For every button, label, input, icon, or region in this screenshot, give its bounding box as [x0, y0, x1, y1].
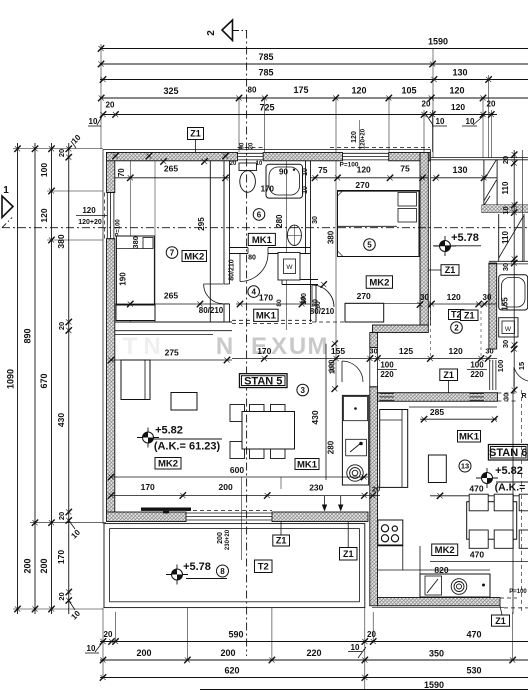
- room2 dim row y304: [428, 303, 497, 305]
- staircase rails upper: [483, 160, 485, 206]
- STAN6 kitchen top counter line: [409, 406, 497, 408]
- room7 wardrobe: [116, 305, 155, 321]
- svg-text:Z1: Z1: [190, 129, 201, 139]
- svg-text:MK2: MK2: [184, 251, 204, 262]
- svg-text:5: 5: [367, 240, 372, 249]
- washer W: [278, 253, 300, 281]
- svg-text:120: 120: [449, 86, 464, 96]
- bath vertical dim line: [285, 161, 287, 330]
- svg-text:230: 230: [309, 483, 323, 493]
- svg-text:W: W: [505, 326, 512, 333]
- svg-text:470: 470: [469, 484, 483, 494]
- svg-text:100: 100: [496, 360, 505, 373]
- Z1 label room2: [441, 265, 459, 276]
- STAN 5 label redraw: [240, 374, 288, 388]
- svg-text:200: 200: [39, 558, 49, 573]
- svg-text:Z1: Z1: [276, 536, 287, 546]
- svg-text:170: 170: [259, 293, 273, 303]
- top wall inner face ticks: [112, 153, 118, 159]
- room5 door (south): [312, 285, 334, 307]
- svg-text:80/210: 80/210: [310, 307, 335, 316]
- svg-text:30: 30: [501, 340, 510, 348]
- dimension row top 5 (20/725/20/120/20): [103, 114, 497, 116]
- svg-text:120: 120: [357, 165, 371, 175]
- room2 dim row y358 (170/155/30/125/120/30): [232, 358, 497, 360]
- svg-text:120: 120: [351, 86, 366, 96]
- room7 dim row (70/265): [115, 177, 230, 179]
- svg-text:+5.78: +5.78: [183, 561, 211, 573]
- svg-text:350: 350: [429, 649, 444, 659]
- svg-text:P=100: P=100: [509, 589, 527, 595]
- room7 bed: [116, 236, 154, 304]
- svg-text:T2: T2: [451, 310, 462, 320]
- section line 1 horizontal dash-dot: [2, 227, 528, 229]
- extension lines left: [13, 148, 103, 150]
- svg-text:230+20: 230+20: [225, 529, 231, 550]
- leader 10 left bottom: [69, 600, 75, 610]
- svg-text:Z1: Z1: [495, 616, 506, 626]
- svg-text:220: 220: [306, 648, 321, 658]
- svg-text:20: 20: [57, 322, 66, 330]
- svg-text:100: 100: [327, 360, 336, 373]
- STAN6 dim 470 top: [430, 495, 528, 497]
- svg-text:MK1: MK1: [459, 432, 480, 443]
- TV console: [141, 508, 191, 511]
- svg-text:30: 30: [312, 216, 319, 224]
- wall bath/hall horizontal: [230, 247, 249, 249]
- section marker 2 top: [222, 20, 233, 41]
- STAN6 east window below: [489, 360, 491, 390]
- svg-text:270: 270: [355, 180, 369, 190]
- STAN6 bathtub: [499, 275, 528, 310]
- svg-text:2: 2: [454, 323, 459, 332]
- svg-text:190: 190: [118, 272, 127, 286]
- bottom dim row 1 (20/590/20/470): [100, 641, 528, 643]
- room5 dim row 75/120/75: [311, 177, 429, 179]
- svg-text:430: 430: [310, 410, 320, 424]
- svg-text:670: 670: [39, 373, 49, 388]
- hall door arc east: [321, 281, 327, 287]
- svg-text:W: W: [286, 264, 293, 271]
- STAN6 spiral stove2: [451, 579, 467, 595]
- dining table: [242, 412, 295, 450]
- svg-text:100: 100: [39, 163, 49, 177]
- STAN 5 label: [240, 374, 288, 388]
- wall jog band y325: [373, 325, 429, 333]
- bath MK1: [248, 233, 275, 245]
- STAN 6 label: [488, 445, 528, 461]
- svg-text:220: 220: [470, 370, 484, 379]
- svg-text:10: 10: [256, 161, 263, 167]
- svg-text:380: 380: [327, 230, 336, 244]
- room7 east partition: [209, 161, 211, 322]
- svg-text:30: 30: [485, 347, 493, 356]
- svg-text:100: 100: [380, 361, 394, 370]
- dimension row top 4 (325/80/175/120/105/120): [100, 97, 528, 99]
- svg-text:6: 6: [257, 210, 262, 219]
- Z1 label top: [188, 128, 204, 140]
- left dim column 4 (20/390/20/../20/170/20): [68, 143, 70, 614]
- svg-text:620: 620: [224, 666, 239, 676]
- vent window bath: [238, 152, 264, 154]
- svg-text:Z1: Z1: [343, 549, 354, 559]
- svg-text:+5.82: +5.82: [155, 425, 183, 437]
- living dim row 170/200/230/20: [111, 495, 380, 497]
- svg-text:80/210: 80/210: [199, 306, 224, 315]
- svg-text:380: 380: [131, 236, 140, 249]
- svg-text:785: 785: [258, 68, 273, 78]
- svg-text:20: 20: [422, 100, 431, 109]
- svg-text:30: 30: [483, 293, 492, 302]
- door in west wall STAN6: [369, 347, 371, 386]
- svg-text:890: 890: [23, 328, 33, 343]
- STAN6 counter left column: [402, 545, 404, 570]
- svg-text:7: 7: [170, 248, 175, 257]
- leader 10 top-right: [473, 115, 485, 126]
- svg-text:200: 200: [23, 558, 33, 573]
- left dim column 1 (1090): [17, 143, 19, 614]
- svg-text:120: 120: [447, 292, 461, 302]
- svg-text:170: 170: [261, 185, 275, 194]
- svg-text:MK1: MK1: [252, 235, 273, 246]
- Z1 bottom-right: [492, 615, 510, 626]
- svg-text:430: 430: [56, 413, 66, 427]
- svg-text:(A.K.= 61.23): (A.K.= 61.23): [154, 441, 221, 453]
- +5.78 marker NE: [434, 236, 456, 256]
- STAN6 MK2: [432, 544, 458, 556]
- svg-text:20: 20: [372, 485, 380, 494]
- window left 120: [106, 193, 108, 239]
- facade outer line left/top: [102, 150, 104, 524]
- svg-text:470: 470: [470, 550, 484, 560]
- living MK1: [295, 459, 319, 471]
- window room5: [343, 152, 389, 154]
- leader 10 top-mid: [426, 115, 433, 126]
- svg-text:200: 200: [219, 482, 233, 492]
- svg-text:2: 2: [206, 30, 217, 36]
- STAN6 chairs: [469, 494, 488, 511]
- wall bath/room5 vertical: [305, 161, 307, 254]
- svg-text:+5.78: +5.78: [451, 232, 479, 244]
- wall hall east vertical: [310, 254, 312, 323]
- svg-text:530: 530: [466, 666, 481, 676]
- svg-text:80: 80: [248, 255, 256, 262]
- svg-text:100: 100: [301, 293, 308, 305]
- svg-text:MK1: MK1: [256, 311, 277, 322]
- svg-text:Z1: Z1: [464, 310, 475, 320]
- svg-text:20: 20: [57, 149, 66, 157]
- svg-text:200: 200: [136, 648, 151, 658]
- svg-text:280: 280: [275, 214, 284, 228]
- svg-text:MK1: MK1: [297, 459, 318, 470]
- svg-text:280: 280: [327, 440, 336, 454]
- STAN6 stove: [378, 520, 403, 545]
- svg-text:T: T: [123, 333, 138, 360]
- kitchen stove spiral STAN5: [347, 465, 363, 481]
- dining chairs top: [230, 405, 245, 422]
- dining chairs bottom: [230, 442, 245, 459]
- room7 door arc: [204, 284, 224, 304]
- STAN6 top wall band: [378, 393, 498, 402]
- svg-text:10: 10: [302, 168, 309, 176]
- leader 10 top-left: [97, 115, 103, 126]
- extension lines top: [100, 44, 102, 149]
- svg-text:75: 75: [400, 164, 410, 174]
- svg-text:380: 380: [56, 234, 66, 248]
- svg-text:470: 470: [466, 630, 481, 640]
- bottom dim row 3 (620/530): [100, 677, 528, 679]
- svg-text:10: 10: [351, 643, 360, 652]
- bathtub: [266, 164, 303, 198]
- svg-text:20: 20: [57, 512, 66, 520]
- svg-text:725: 725: [259, 103, 274, 113]
- svg-text:120: 120: [449, 346, 463, 356]
- wall bottom STAN5 (with terrace door gap): [107, 512, 187, 522]
- svg-text:20: 20: [106, 101, 115, 110]
- svg-text:295: 295: [197, 217, 206, 231]
- STAN6 coffee table: [428, 455, 446, 483]
- STAN6 dim 470 bottom: [430, 561, 528, 563]
- svg-text:175: 175: [293, 85, 308, 95]
- svg-text:+5.82: +5.82: [495, 465, 523, 477]
- svg-text:120+20: 120+20: [361, 128, 367, 149]
- leader 10 left top: [71, 141, 76, 148]
- svg-text:N: N: [143, 333, 160, 360]
- section marker 1 left: [2, 196, 13, 218]
- coffee table: [171, 393, 197, 411]
- svg-text:125: 125: [399, 346, 413, 356]
- svg-text:270: 270: [357, 291, 371, 301]
- svg-text:265: 265: [164, 164, 178, 174]
- living MK2: [155, 458, 181, 470]
- wall west of STAN6 (vertical) with door gap: [370, 333, 378, 348]
- svg-text:U: U: [289, 333, 306, 360]
- STAN6 right vertical line: [512, 390, 514, 614]
- washer niche walls: [282, 279, 318, 281]
- svg-text:15: 15: [517, 362, 526, 370]
- terrace door extension line: [241, 477, 243, 560]
- svg-text:20: 20: [57, 592, 66, 600]
- svg-text:13: 13: [461, 462, 469, 471]
- svg-text:10: 10: [302, 186, 309, 194]
- svg-text:80: 80: [248, 86, 257, 95]
- section line 2 vertical dash-dot: [246, 31, 248, 657]
- circled 13: [459, 460, 471, 472]
- terrace outline: [104, 524, 365, 608]
- svg-text:130: 130: [452, 68, 467, 78]
- left dim column 2 (890/200): [34, 143, 36, 614]
- svg-text:10: 10: [436, 117, 445, 126]
- svg-text:P=100: P=100: [340, 162, 359, 169]
- svg-text:(A.K.=: (A.K.=: [495, 482, 526, 494]
- dimension row top 3 (785/130): [100, 79, 528, 81]
- svg-text:170: 170: [257, 346, 271, 356]
- room5 dim 270 lower: [345, 302, 420, 304]
- svg-text:N: N: [216, 333, 233, 360]
- svg-text:200: 200: [220, 648, 235, 658]
- svg-text:220: 220: [380, 370, 394, 379]
- svg-text:1590: 1590: [428, 37, 448, 47]
- room2 extension dashed verticals: [480, 305, 482, 358]
- svg-text:155: 155: [501, 297, 510, 311]
- svg-text:100: 100: [470, 361, 484, 370]
- bath door arc: [240, 254, 268, 282]
- stair landing bar: [482, 205, 528, 213]
- staircase ladder diagonals: [484, 160, 497, 181]
- hall MK1: [254, 309, 278, 322]
- STAN6 bottom wall band: [378, 598, 501, 606]
- svg-text:M: M: [308, 333, 328, 360]
- room5 desk: [345, 303, 384, 322]
- svg-text:170: 170: [56, 550, 66, 564]
- svg-text:170: 170: [141, 482, 155, 492]
- room2 door arc NE: [514, 367, 528, 381]
- bottom dim row 2 (200/200/220/350): [100, 659, 528, 661]
- terrace sliding door: [186, 512, 272, 514]
- svg-text:MK2: MK2: [369, 277, 389, 288]
- STAN6 top band opening dashed: [498, 392, 518, 394]
- STAN6 elevation: [476, 468, 498, 488]
- STAN6 sofa: [380, 410, 408, 488]
- svg-text:3: 3: [300, 386, 305, 395]
- svg-text:20: 20: [249, 142, 255, 149]
- svg-text:120: 120: [82, 206, 96, 215]
- svg-text:X: X: [271, 333, 287, 360]
- svg-text:80: 80: [276, 299, 283, 307]
- left dim column 3 (100/120/670/200): [51, 143, 53, 614]
- svg-text:110: 110: [501, 230, 510, 243]
- arrows to wall: [324, 496, 326, 510]
- kitchen counter STAN5: [342, 395, 368, 485]
- sofa: [121, 360, 150, 400]
- svg-text:325: 325: [163, 86, 178, 96]
- svg-text:70: 70: [117, 168, 126, 177]
- svg-text:30: 30: [501, 263, 510, 271]
- svg-text:600: 600: [230, 465, 244, 475]
- staircase rails lower: [498, 214, 500, 261]
- Z1 label above band: [440, 369, 458, 381]
- dim 230 above: [280, 477, 282, 489]
- svg-text:120: 120: [351, 131, 358, 143]
- living dim 600: [111, 476, 368, 478]
- svg-text:285: 285: [430, 407, 444, 417]
- svg-text:20: 20: [367, 630, 376, 639]
- terrace elevation: [166, 565, 188, 585]
- svg-text:265: 265: [164, 291, 178, 301]
- svg-text:10: 10: [466, 117, 475, 126]
- svg-text:90: 90: [279, 167, 288, 176]
- svg-text:1090: 1090: [6, 369, 16, 389]
- dimension row top 2 (785): [100, 63, 528, 65]
- toilet room6: [239, 163, 257, 171]
- room5 bed dim 270: [338, 190, 421, 192]
- STAN6 washer: [499, 318, 518, 337]
- svg-text:10: 10: [87, 644, 96, 653]
- svg-text:785: 785: [258, 52, 273, 62]
- svg-text:20: 20: [230, 161, 237, 167]
- bottom dim row 4 (1590): [200, 689, 528, 690]
- svg-text:120: 120: [39, 208, 49, 222]
- terrace Z1 labels: [273, 535, 290, 546]
- svg-text:MK2: MK2: [435, 545, 455, 556]
- svg-text:8: 8: [220, 567, 225, 576]
- wall bath west: [223, 161, 225, 284]
- svg-text:275: 275: [165, 348, 179, 358]
- extension lines bottom: [102, 608, 104, 678]
- svg-text:MK2: MK2: [158, 459, 178, 470]
- svg-text:155: 155: [331, 346, 345, 356]
- svg-text:4: 4: [251, 287, 256, 296]
- STAN6 dining table: [467, 502, 517, 540]
- stair south wall line: [431, 157, 528, 159]
- wall top (with two window gaps): [107, 153, 238, 161]
- wall left (with window gap): [107, 153, 115, 193]
- svg-text:130: 130: [452, 165, 467, 175]
- svg-text:80: 80: [313, 299, 320, 307]
- svg-text:20: 20: [487, 100, 496, 109]
- room5 bed: [338, 191, 420, 257]
- svg-text:10: 10: [501, 206, 510, 214]
- leader 10 left mid: [69, 520, 75, 529]
- STAN6 bottom counter: [378, 569, 490, 571]
- wall NE vertical (room5 east): [420, 153, 428, 326]
- room5 long extension line: [335, 161, 337, 390]
- elevation living: [137, 428, 159, 448]
- svg-text:10: 10: [89, 117, 98, 126]
- svg-text:200: 200: [217, 532, 224, 544]
- svg-text:820: 820: [434, 565, 448, 575]
- svg-text:110: 110: [501, 181, 510, 194]
- T2 / Z1 labels room2: [449, 310, 465, 320]
- bidet: [287, 225, 301, 245]
- svg-text:590: 590: [228, 630, 243, 640]
- svg-text:STAN 5: STAN 5: [244, 376, 282, 388]
- living dim 275: [111, 359, 232, 361]
- svg-text:T2: T2: [258, 562, 269, 573]
- svg-text:R: R: [521, 393, 526, 400]
- wall under rooms7/hall (living north): [115, 321, 232, 323]
- svg-text:1: 1: [3, 185, 9, 196]
- svg-text:75: 75: [318, 165, 328, 175]
- svg-text:20: 20: [501, 156, 510, 164]
- svg-text:80/210: 80/210: [229, 259, 236, 281]
- svg-text:105: 105: [401, 86, 416, 96]
- right dim column: [513, 150, 515, 392]
- svg-text:120+20: 120+20: [78, 219, 102, 226]
- STAN6 MK1: [458, 431, 481, 443]
- svg-text:1590: 1590: [424, 680, 444, 690]
- kitchen door arc: [342, 361, 363, 382]
- svg-text:30: 30: [504, 393, 511, 401]
- svg-text:30: 30: [420, 293, 429, 302]
- svg-text:Z1: Z1: [443, 370, 454, 380]
- terrace T2 label: [255, 560, 273, 573]
- svg-text:90: 90: [240, 142, 246, 149]
- kitchen divider line: [325, 344, 327, 480]
- room5 MK2: [366, 276, 392, 289]
- svg-text:Z1: Z1: [445, 265, 456, 275]
- STAN6 east wall: [489, 263, 497, 349]
- stair dim 130: [431, 177, 498, 179]
- svg-text:120: 120: [451, 102, 465, 112]
- svg-text:20: 20: [104, 630, 113, 639]
- STAN6 top band windows 100/220: [380, 393, 395, 395]
- svg-text:30: 30: [369, 347, 377, 356]
- room7 bottom dim 265: [115, 303, 230, 305]
- STAN6 dim 285: [420, 418, 497, 420]
- dimension row top 1 (1590): [100, 48, 528, 50]
